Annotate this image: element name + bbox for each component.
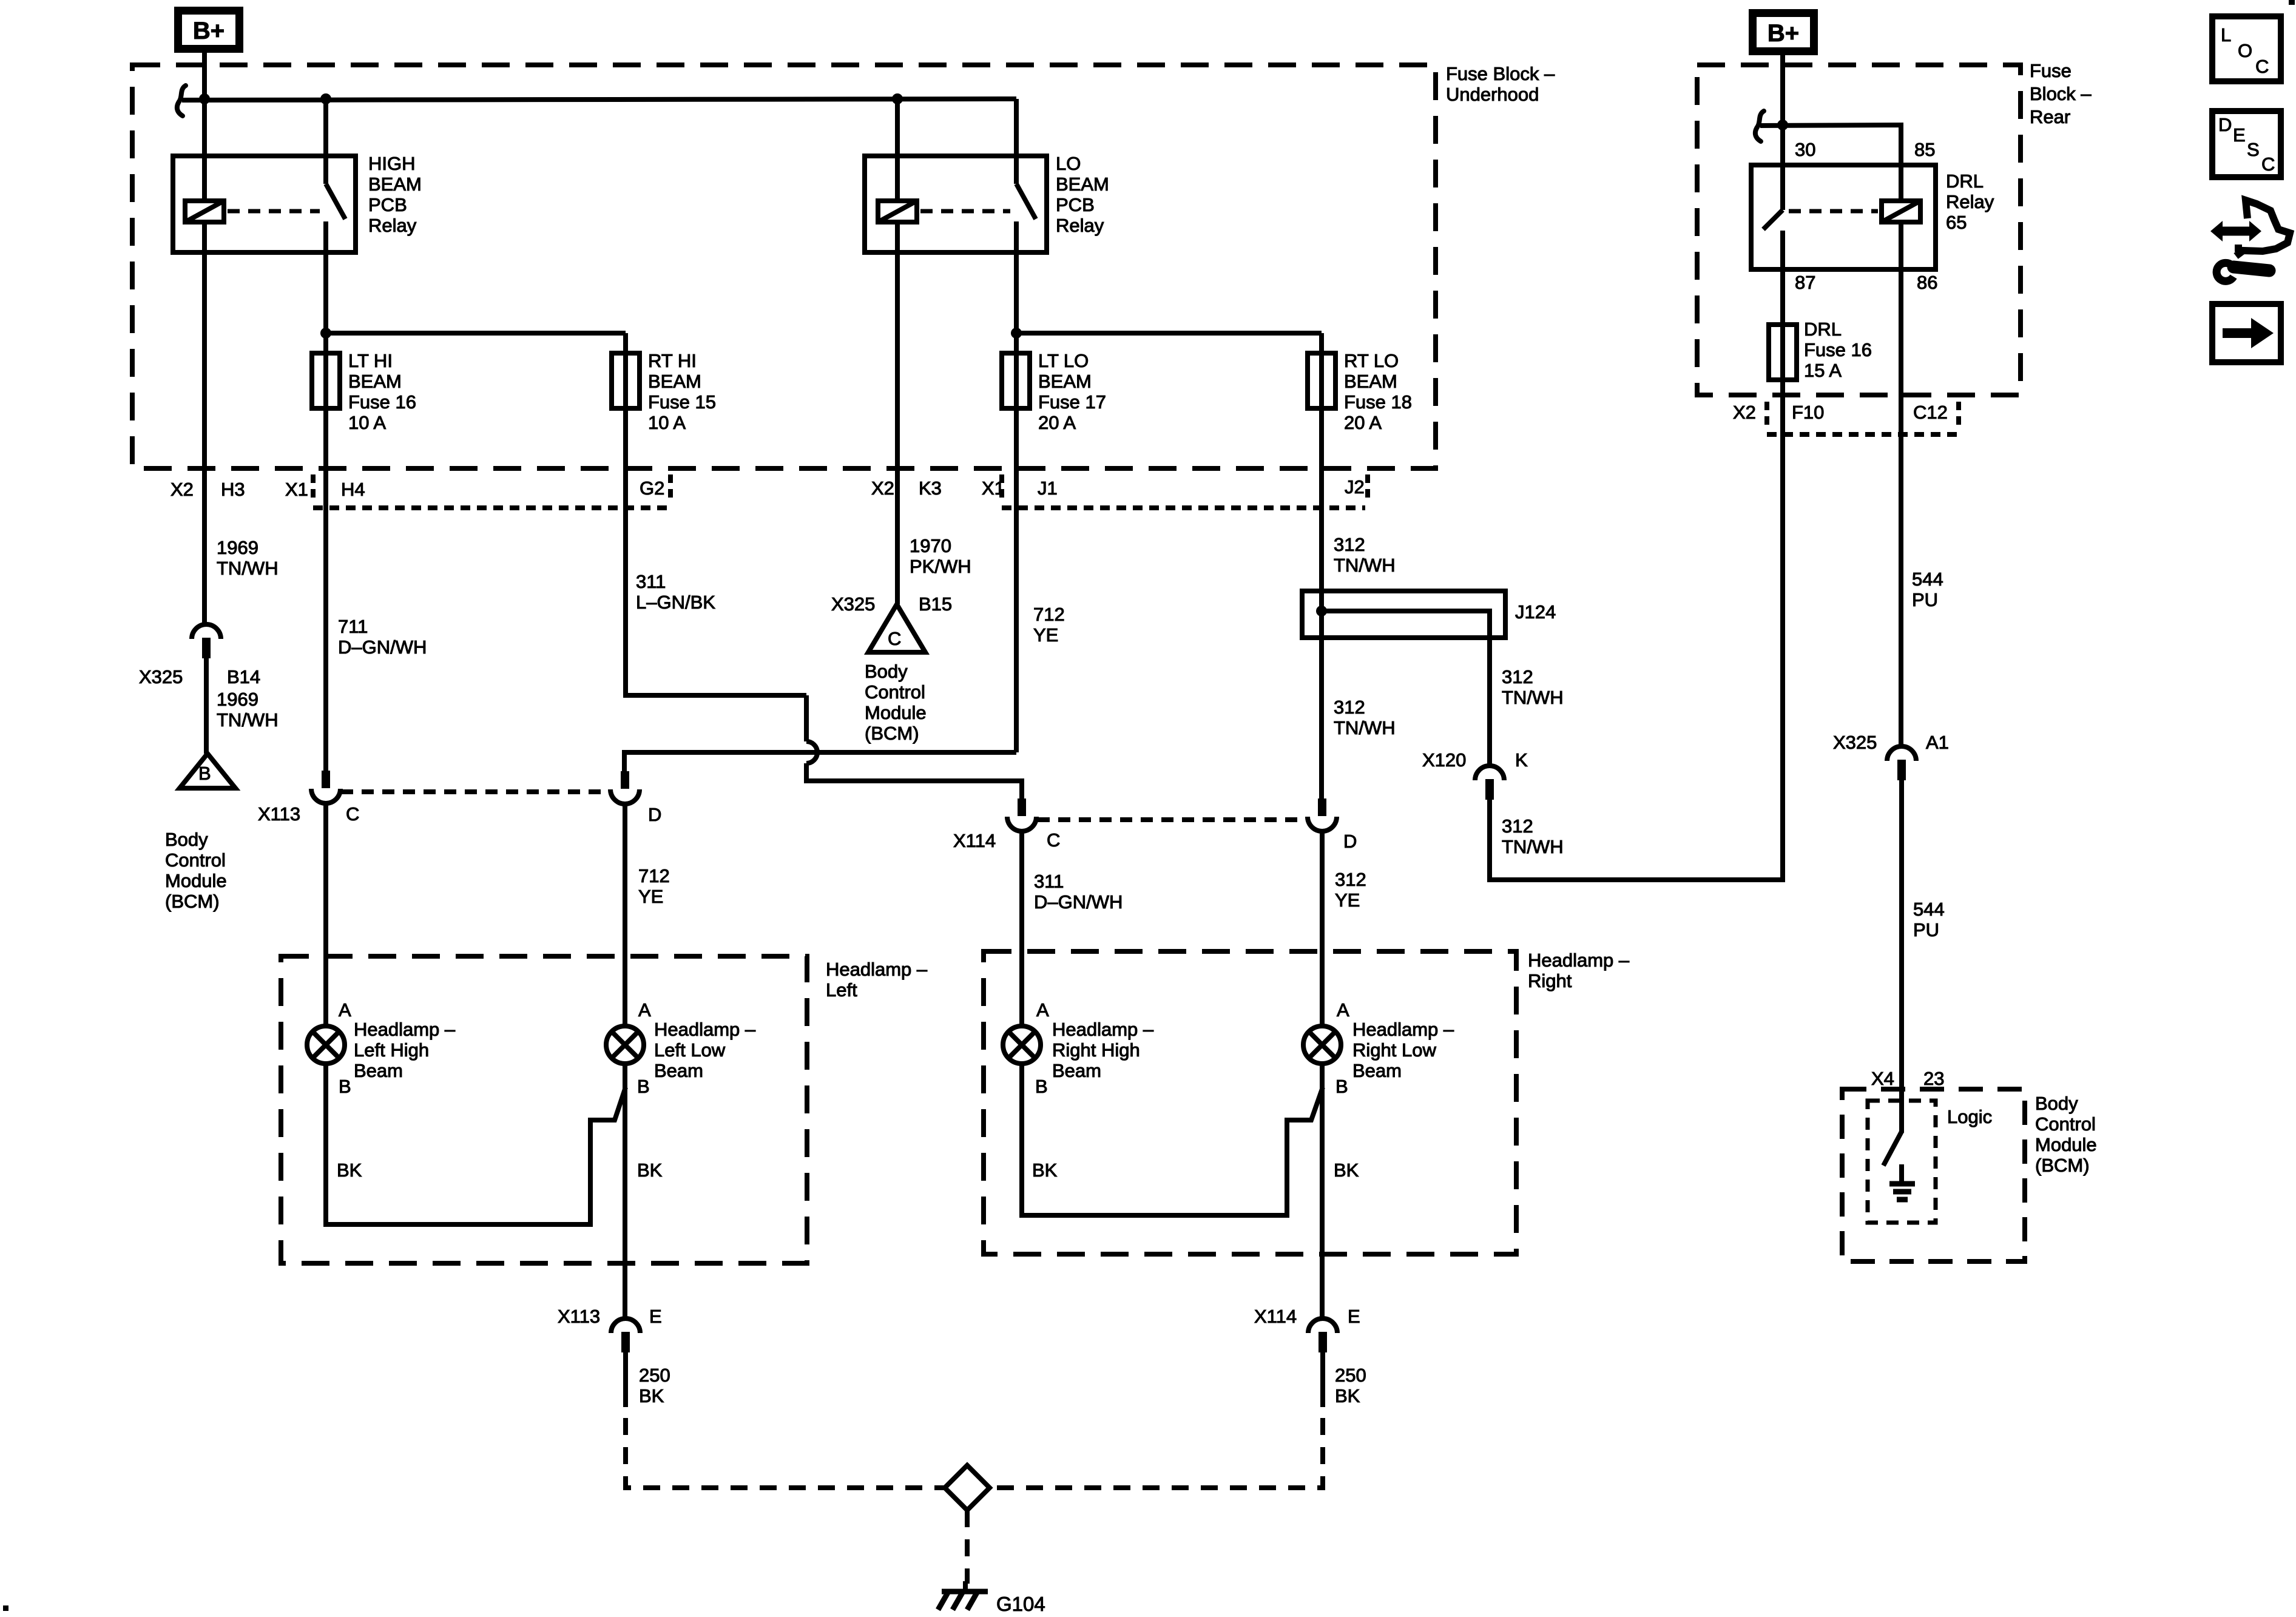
svg-text:Right Low: Right Low xyxy=(1352,1039,1436,1061)
relay K3 switch blade xyxy=(1763,210,1783,229)
svg-text:B: B xyxy=(1035,1076,1048,1097)
headlamp dashed box Headlamp - Left xyxy=(281,956,807,1263)
BCM internal switch blade xyxy=(1883,1132,1902,1166)
icon LOC box xyxy=(2212,16,2281,81)
svg-text:LT LO: LT LO xyxy=(1038,350,1089,371)
lamp E3 Headlamp Right High Beam xyxy=(1003,1026,1041,1064)
svg-text:PCB: PCB xyxy=(1056,194,1095,215)
svg-text:B: B xyxy=(1335,1076,1348,1097)
svg-text:E: E xyxy=(649,1306,662,1327)
svg-text:J124: J124 xyxy=(1515,601,1556,623)
svg-text:BEAM: BEAM xyxy=(368,174,422,195)
relay K2 switch input wire xyxy=(1014,99,1019,184)
wire low beam feed to RT LO fuse xyxy=(1016,331,1322,336)
wire K2 coil output to X2 K3 xyxy=(895,222,900,604)
wire 544 PU to BCM X4-23 xyxy=(1899,780,1904,1133)
page mark bottom left xyxy=(3,1605,8,1611)
svg-text:BK: BK xyxy=(637,1160,663,1181)
svg-text:15 A: 15 A xyxy=(1804,360,1842,381)
wire K1 switch output xyxy=(323,221,328,771)
svg-text:Headlamp –: Headlamp – xyxy=(1528,950,1630,971)
BCM logic dashed box xyxy=(1868,1101,1936,1223)
svg-text:1969: 1969 xyxy=(217,537,258,558)
node junction inside J124 xyxy=(1316,606,1327,616)
relay K2 coil-switch dashed link xyxy=(920,209,1010,214)
wire B+ right vertical xyxy=(1780,55,1785,210)
wire 311 crossover hop over 712 xyxy=(806,741,817,763)
node junction B+ bus at x337 xyxy=(199,93,210,104)
wire K2 coil feed xyxy=(895,99,900,201)
svg-text:1969: 1969 xyxy=(217,689,258,710)
svg-text:20 A: 20 A xyxy=(1038,412,1076,433)
ground G104 symbol xyxy=(963,1581,968,1593)
connector X114 D xyxy=(1318,798,1326,816)
svg-text:B+: B+ xyxy=(193,18,225,44)
svg-text:Left: Left xyxy=(826,979,857,1001)
svg-text:Body: Body xyxy=(165,829,208,850)
relay K1 coil xyxy=(185,201,224,222)
svg-text:Headlamp –: Headlamp – xyxy=(354,1019,456,1040)
svg-text:Fuse Block –: Fuse Block – xyxy=(1446,63,1555,84)
svg-text:Left High: Left High xyxy=(354,1039,429,1061)
svg-text:Left Low: Left Low xyxy=(654,1039,726,1061)
svg-text:H4: H4 xyxy=(341,479,365,500)
svg-text:86: 86 xyxy=(1917,272,1937,293)
svg-text:Relay: Relay xyxy=(368,215,417,236)
svg-text:RT HI: RT HI xyxy=(648,350,697,371)
BCM terminal triangle B xyxy=(180,754,235,788)
svg-text:Fuse 16: Fuse 16 xyxy=(1804,339,1872,360)
svg-text:B: B xyxy=(339,1076,351,1097)
wire 711 to left high beam lamp xyxy=(323,803,328,1025)
svg-text:312: 312 xyxy=(1334,697,1365,718)
wire K2 switch output xyxy=(1014,221,1019,752)
svg-text:10 A: 10 A xyxy=(648,412,686,433)
svg-text:311: 311 xyxy=(1034,871,1064,892)
ground dashed drop to G104 xyxy=(965,1510,970,1584)
node junction B+ bus at x1479 xyxy=(892,93,903,104)
svg-text:Control: Control xyxy=(2035,1113,2096,1135)
relay K3 switch output stub xyxy=(1780,231,1785,434)
wire B+ left vertical / coil feed 1969 path xyxy=(202,53,207,201)
wire 311 jog down xyxy=(804,695,809,741)
svg-text:D–GN/WH: D–GN/WH xyxy=(338,636,427,658)
svg-text:Headlamp –: Headlamp – xyxy=(654,1019,756,1040)
svg-text:X325: X325 xyxy=(139,666,183,687)
lamp E4 Headlamp Right Low Beam xyxy=(1303,1026,1341,1064)
svg-text:L–GN/BK: L–GN/BK xyxy=(636,592,715,613)
lamp E2 Headlamp Left Low Beam xyxy=(606,1026,644,1064)
rear connector dotted strip xyxy=(1767,432,1959,437)
svg-text:X120: X120 xyxy=(1422,749,1466,771)
svg-text:HIGH: HIGH xyxy=(368,153,416,174)
svg-text:D–GN/WH: D–GN/WH xyxy=(1034,891,1123,913)
svg-text:B15: B15 xyxy=(919,593,952,615)
connector X325 A1 inline xyxy=(1887,746,1916,761)
wire high beam feed to RT HI fuse xyxy=(326,331,626,336)
svg-text:Module: Module xyxy=(165,870,227,891)
ground distribution dashed left xyxy=(626,1418,947,1488)
connector X325 B14 inline xyxy=(192,624,221,639)
svg-text:712: 712 xyxy=(638,865,670,886)
icon DESC box xyxy=(2212,111,2281,177)
svg-text:(BCM): (BCM) xyxy=(2035,1155,2090,1176)
relay K2 coil xyxy=(878,201,917,222)
svg-text:C: C xyxy=(2255,56,2269,77)
svg-text:Control: Control xyxy=(865,681,925,703)
svg-text:Headlamp –: Headlamp – xyxy=(1052,1019,1154,1040)
svg-text:PU: PU xyxy=(1912,589,1938,610)
svg-text:TN/WH: TN/WH xyxy=(1502,836,1564,857)
svg-text:TN/WH: TN/WH xyxy=(1334,555,1396,576)
svg-text:DRL: DRL xyxy=(1804,319,1842,340)
svg-text:712: 712 xyxy=(1033,604,1065,625)
svg-text:BEAM: BEAM xyxy=(1056,174,1109,195)
svg-text:C: C xyxy=(1047,829,1060,851)
svg-text:Fuse: Fuse xyxy=(2030,60,2071,81)
wire E2 ground side to X113 E xyxy=(623,1065,627,1318)
svg-text:PK/WH: PK/WH xyxy=(910,556,971,577)
svg-text:Relay: Relay xyxy=(1946,191,1994,212)
svg-text:311: 311 xyxy=(636,571,666,592)
relay K3 coil-switch dashed link xyxy=(1789,209,1878,214)
svg-text:J2: J2 xyxy=(1345,476,1365,498)
BCM internal ground symbol xyxy=(1899,1164,1904,1183)
icon wrench xyxy=(2217,263,2234,281)
svg-text:250: 250 xyxy=(639,1365,670,1386)
svg-text:312: 312 xyxy=(1502,815,1533,837)
svg-text:312: 312 xyxy=(1335,869,1366,890)
svg-text:X325: X325 xyxy=(1833,732,1877,753)
svg-text:Rear: Rear xyxy=(2030,106,2070,127)
svg-text:F10: F10 xyxy=(1792,402,1824,423)
svg-text:Module: Module xyxy=(2035,1134,2097,1155)
connector X114 dotted line C to D xyxy=(1038,817,1306,822)
svg-text:X1: X1 xyxy=(285,479,308,500)
relay K2 switch blade xyxy=(1016,184,1036,219)
svg-text:B+: B+ xyxy=(1768,20,1799,47)
connector X1 dotted strip right xyxy=(999,474,1004,504)
connector X114 E inline xyxy=(1308,1318,1337,1333)
connector X113 C xyxy=(322,771,330,788)
svg-text:544: 544 xyxy=(1913,899,1945,920)
node junction rear B+ split xyxy=(1777,120,1788,130)
svg-text:85: 85 xyxy=(1914,139,1935,160)
svg-text:X4: X4 xyxy=(1871,1068,1894,1089)
svg-text:BK: BK xyxy=(639,1385,664,1406)
svg-text:X114: X114 xyxy=(1254,1306,1297,1327)
svg-text:TN/WH: TN/WH xyxy=(217,709,279,731)
svg-text:Fuse 15: Fuse 15 xyxy=(648,391,716,413)
svg-text:G2: G2 xyxy=(640,478,664,499)
connector X113 E inline xyxy=(611,1318,640,1333)
wire E3 ground side BK xyxy=(1022,1065,1323,1215)
svg-text:87: 87 xyxy=(1795,272,1815,293)
svg-text:312: 312 xyxy=(1502,666,1533,687)
svg-text:Body: Body xyxy=(865,661,908,682)
svg-text:E: E xyxy=(1348,1306,1360,1327)
battery feed B+ (right) xyxy=(1753,13,1814,52)
rear connector dotted ticks xyxy=(1764,402,1769,428)
svg-text:BK: BK xyxy=(1334,1160,1359,1181)
svg-text:544: 544 xyxy=(1912,569,1943,590)
svg-text:C: C xyxy=(346,803,359,825)
svg-text:Fuse 17: Fuse 17 xyxy=(1038,391,1106,413)
svg-text:10 A: 10 A xyxy=(348,412,386,433)
svg-text:Headlamp –: Headlamp – xyxy=(826,959,928,980)
bus bar hook symbol left xyxy=(177,86,186,116)
svg-text:(BCM): (BCM) xyxy=(865,723,919,744)
svg-text:BEAM: BEAM xyxy=(1038,371,1092,392)
svg-text:Right High: Right High xyxy=(1052,1039,1140,1061)
svg-text:YE: YE xyxy=(1033,624,1058,646)
connector X114 C xyxy=(1018,798,1026,816)
svg-text:Relay: Relay xyxy=(1056,215,1104,236)
svg-text:RT LO: RT LO xyxy=(1344,350,1399,371)
svg-text:BEAM: BEAM xyxy=(648,371,701,392)
svg-text:65: 65 xyxy=(1946,212,1967,233)
icon harness routing outline xyxy=(2236,200,2290,256)
svg-text:Headlamp –: Headlamp – xyxy=(1352,1019,1454,1040)
BCM dashed box bottom right xyxy=(1842,1089,2025,1261)
svg-text:B: B xyxy=(637,1076,650,1097)
svg-text:B: B xyxy=(198,763,211,784)
wire 311 to right high beam lamp xyxy=(1019,831,1024,1025)
wire 1969 TN/WH to BCM triangle B xyxy=(204,658,209,754)
svg-text:D: D xyxy=(648,804,661,825)
svg-text:BK: BK xyxy=(337,1160,362,1181)
icon forward arrow box xyxy=(2212,304,2281,362)
connector X113 D xyxy=(621,771,629,789)
fuse F18 RT LO BEAM 20A xyxy=(1308,353,1335,408)
svg-text:C: C xyxy=(2261,154,2275,175)
svg-text:K3: K3 xyxy=(919,478,942,499)
relay K3 coil xyxy=(1882,201,1920,222)
fuse DRL Fuse 16 15A xyxy=(1769,325,1797,380)
relay K2 LO BEAM PCB Relay box xyxy=(865,156,1047,252)
wire RT HI fuse drop xyxy=(623,333,628,695)
svg-text:X113: X113 xyxy=(558,1306,600,1327)
svg-text:A: A xyxy=(339,999,351,1021)
wire 311 corner right at y1146 xyxy=(623,693,806,698)
node junction B+ bus at x537 xyxy=(320,93,331,104)
wire 250 BK right xyxy=(1320,1352,1325,1407)
wire 712 YE turn to left low beam xyxy=(624,752,1016,771)
svg-text:250: 250 xyxy=(1335,1365,1366,1386)
svg-text:X2: X2 xyxy=(871,478,894,499)
svg-text:A: A xyxy=(1337,999,1349,1021)
svg-text:TN/WH: TN/WH xyxy=(217,558,279,579)
svg-text:DRL: DRL xyxy=(1946,170,1984,192)
page mark top right xyxy=(2289,0,2295,5)
fuse F17 LT LO BEAM 20A xyxy=(1002,353,1030,408)
fuse F15 RT HI BEAM 10A xyxy=(612,353,640,408)
fuse block underhood dashed boundary xyxy=(132,65,1436,468)
relay K3 DRL Relay box xyxy=(1751,165,1936,269)
svg-text:YE: YE xyxy=(1335,890,1360,911)
svg-text:TN/WH: TN/WH xyxy=(1334,717,1396,738)
svg-text:Beam: Beam xyxy=(354,1060,403,1081)
svg-text:D: D xyxy=(2218,114,2232,135)
ground distribution dashed right xyxy=(987,1418,1323,1488)
svg-text:A: A xyxy=(1036,999,1049,1021)
svg-text:C12: C12 xyxy=(1913,402,1948,423)
bus bar hook symbol right xyxy=(1755,111,1764,141)
wire RT LO fuse drop xyxy=(1319,333,1324,798)
svg-text:YE: YE xyxy=(638,886,663,907)
svg-text:X2: X2 xyxy=(1733,402,1756,423)
svg-text:Control: Control xyxy=(165,849,226,871)
svg-text:BEAM: BEAM xyxy=(1344,371,1397,392)
connector X113 dotted line C to D xyxy=(341,789,609,794)
svg-text:Beam: Beam xyxy=(1052,1060,1101,1081)
svg-text:23: 23 xyxy=(1923,1068,1944,1089)
wire K3 coil output 544 feed xyxy=(1899,222,1903,746)
splice J124 internal branch xyxy=(1322,611,1490,638)
svg-text:J1: J1 xyxy=(1038,478,1058,499)
svg-text:Logic: Logic xyxy=(1947,1106,1992,1127)
relay K1 HIGH BEAM PCB Relay box xyxy=(173,156,356,252)
svg-text:H3: H3 xyxy=(221,479,245,500)
svg-text:(BCM): (BCM) xyxy=(165,891,220,912)
svg-text:Right: Right xyxy=(1528,970,1572,991)
svg-text:PU: PU xyxy=(1913,919,1939,940)
svg-text:TN/WH: TN/WH xyxy=(1502,687,1564,708)
svg-text:X2: X2 xyxy=(171,479,194,500)
svg-text:A: A xyxy=(638,999,651,1021)
svg-text:K: K xyxy=(1515,749,1528,771)
svg-text:Beam: Beam xyxy=(654,1060,703,1081)
svg-text:Body: Body xyxy=(2035,1093,2078,1114)
svg-text:Fuse 18: Fuse 18 xyxy=(1344,391,1412,413)
svg-text:PCB: PCB xyxy=(368,194,407,215)
svg-text:O: O xyxy=(2238,40,2252,61)
svg-text:Fuse 16: Fuse 16 xyxy=(348,391,416,413)
svg-text:X113: X113 xyxy=(258,803,300,825)
svg-text:B14: B14 xyxy=(227,666,260,687)
svg-text:X114: X114 xyxy=(953,830,996,851)
wire rear B+ to coil side xyxy=(1760,125,1901,201)
splice pack J124 box xyxy=(1302,591,1505,638)
wire K1 coil output to X2 H3 xyxy=(202,222,207,624)
wire B+ bus bar xyxy=(182,99,1016,100)
fuse block rear dashed boundary xyxy=(1697,65,2021,395)
wire E1 ground side BK xyxy=(326,1065,626,1224)
relay K1 switch input wire xyxy=(323,99,328,184)
wire 311 to X114 C xyxy=(806,763,1022,798)
svg-text:312: 312 xyxy=(1334,534,1365,555)
battery feed B+ (left) xyxy=(178,11,240,49)
relay K1 coil-switch dashed link xyxy=(228,209,320,214)
svg-text:BEAM: BEAM xyxy=(348,371,402,392)
fuse F16 LT HI BEAM 10A xyxy=(312,353,340,408)
svg-text:Block –: Block – xyxy=(2030,83,2092,104)
BCM terminal triangle C xyxy=(868,604,925,652)
svg-text:L: L xyxy=(2221,24,2231,46)
headlamp dashed box Headlamp - Right xyxy=(984,951,1516,1254)
icon double-headed arrow xyxy=(2221,227,2250,236)
svg-text:LT HI: LT HI xyxy=(348,350,393,371)
svg-text:BK: BK xyxy=(1335,1385,1360,1406)
svg-text:G104: G104 xyxy=(996,1593,1045,1615)
svg-text:BK: BK xyxy=(1032,1160,1058,1181)
svg-text:X325: X325 xyxy=(831,593,875,615)
svg-text:Underhood: Underhood xyxy=(1446,84,1539,105)
svg-text:Beam: Beam xyxy=(1352,1060,1402,1081)
svg-text:Module: Module xyxy=(865,702,927,723)
relay K1 switch blade xyxy=(326,184,345,219)
wire 312 to right low beam lamp xyxy=(1320,831,1325,1025)
svg-text:1970: 1970 xyxy=(910,535,951,556)
svg-text:C: C xyxy=(888,628,901,649)
svg-text:D: D xyxy=(1343,831,1357,852)
svg-text:E: E xyxy=(2233,124,2246,146)
wire E4 ground side to X114 E xyxy=(1320,1065,1325,1318)
connector X1 dotted strip left xyxy=(311,474,316,504)
svg-text:711: 711 xyxy=(338,616,368,637)
connector X120 K inline xyxy=(1475,766,1504,780)
wire 712 to left low beam lamp xyxy=(623,804,627,1025)
lamp E1 Headlamp Left High Beam xyxy=(307,1026,345,1064)
svg-text:S: S xyxy=(2247,139,2260,160)
node junction high beam feed split xyxy=(320,328,331,339)
ground splice diamond xyxy=(945,1465,990,1510)
wire 312 branch to X120 K xyxy=(1487,638,1492,766)
svg-text:LO: LO xyxy=(1056,153,1081,174)
svg-text:30: 30 xyxy=(1795,139,1815,160)
wire 312 from X120 K to rear fuse block F10 xyxy=(1490,434,1783,880)
wire 250 BK left xyxy=(623,1352,628,1407)
svg-text:20 A: 20 A xyxy=(1344,412,1382,433)
svg-text:A1: A1 xyxy=(1926,732,1949,753)
node junction low beam feed split xyxy=(1011,328,1022,339)
